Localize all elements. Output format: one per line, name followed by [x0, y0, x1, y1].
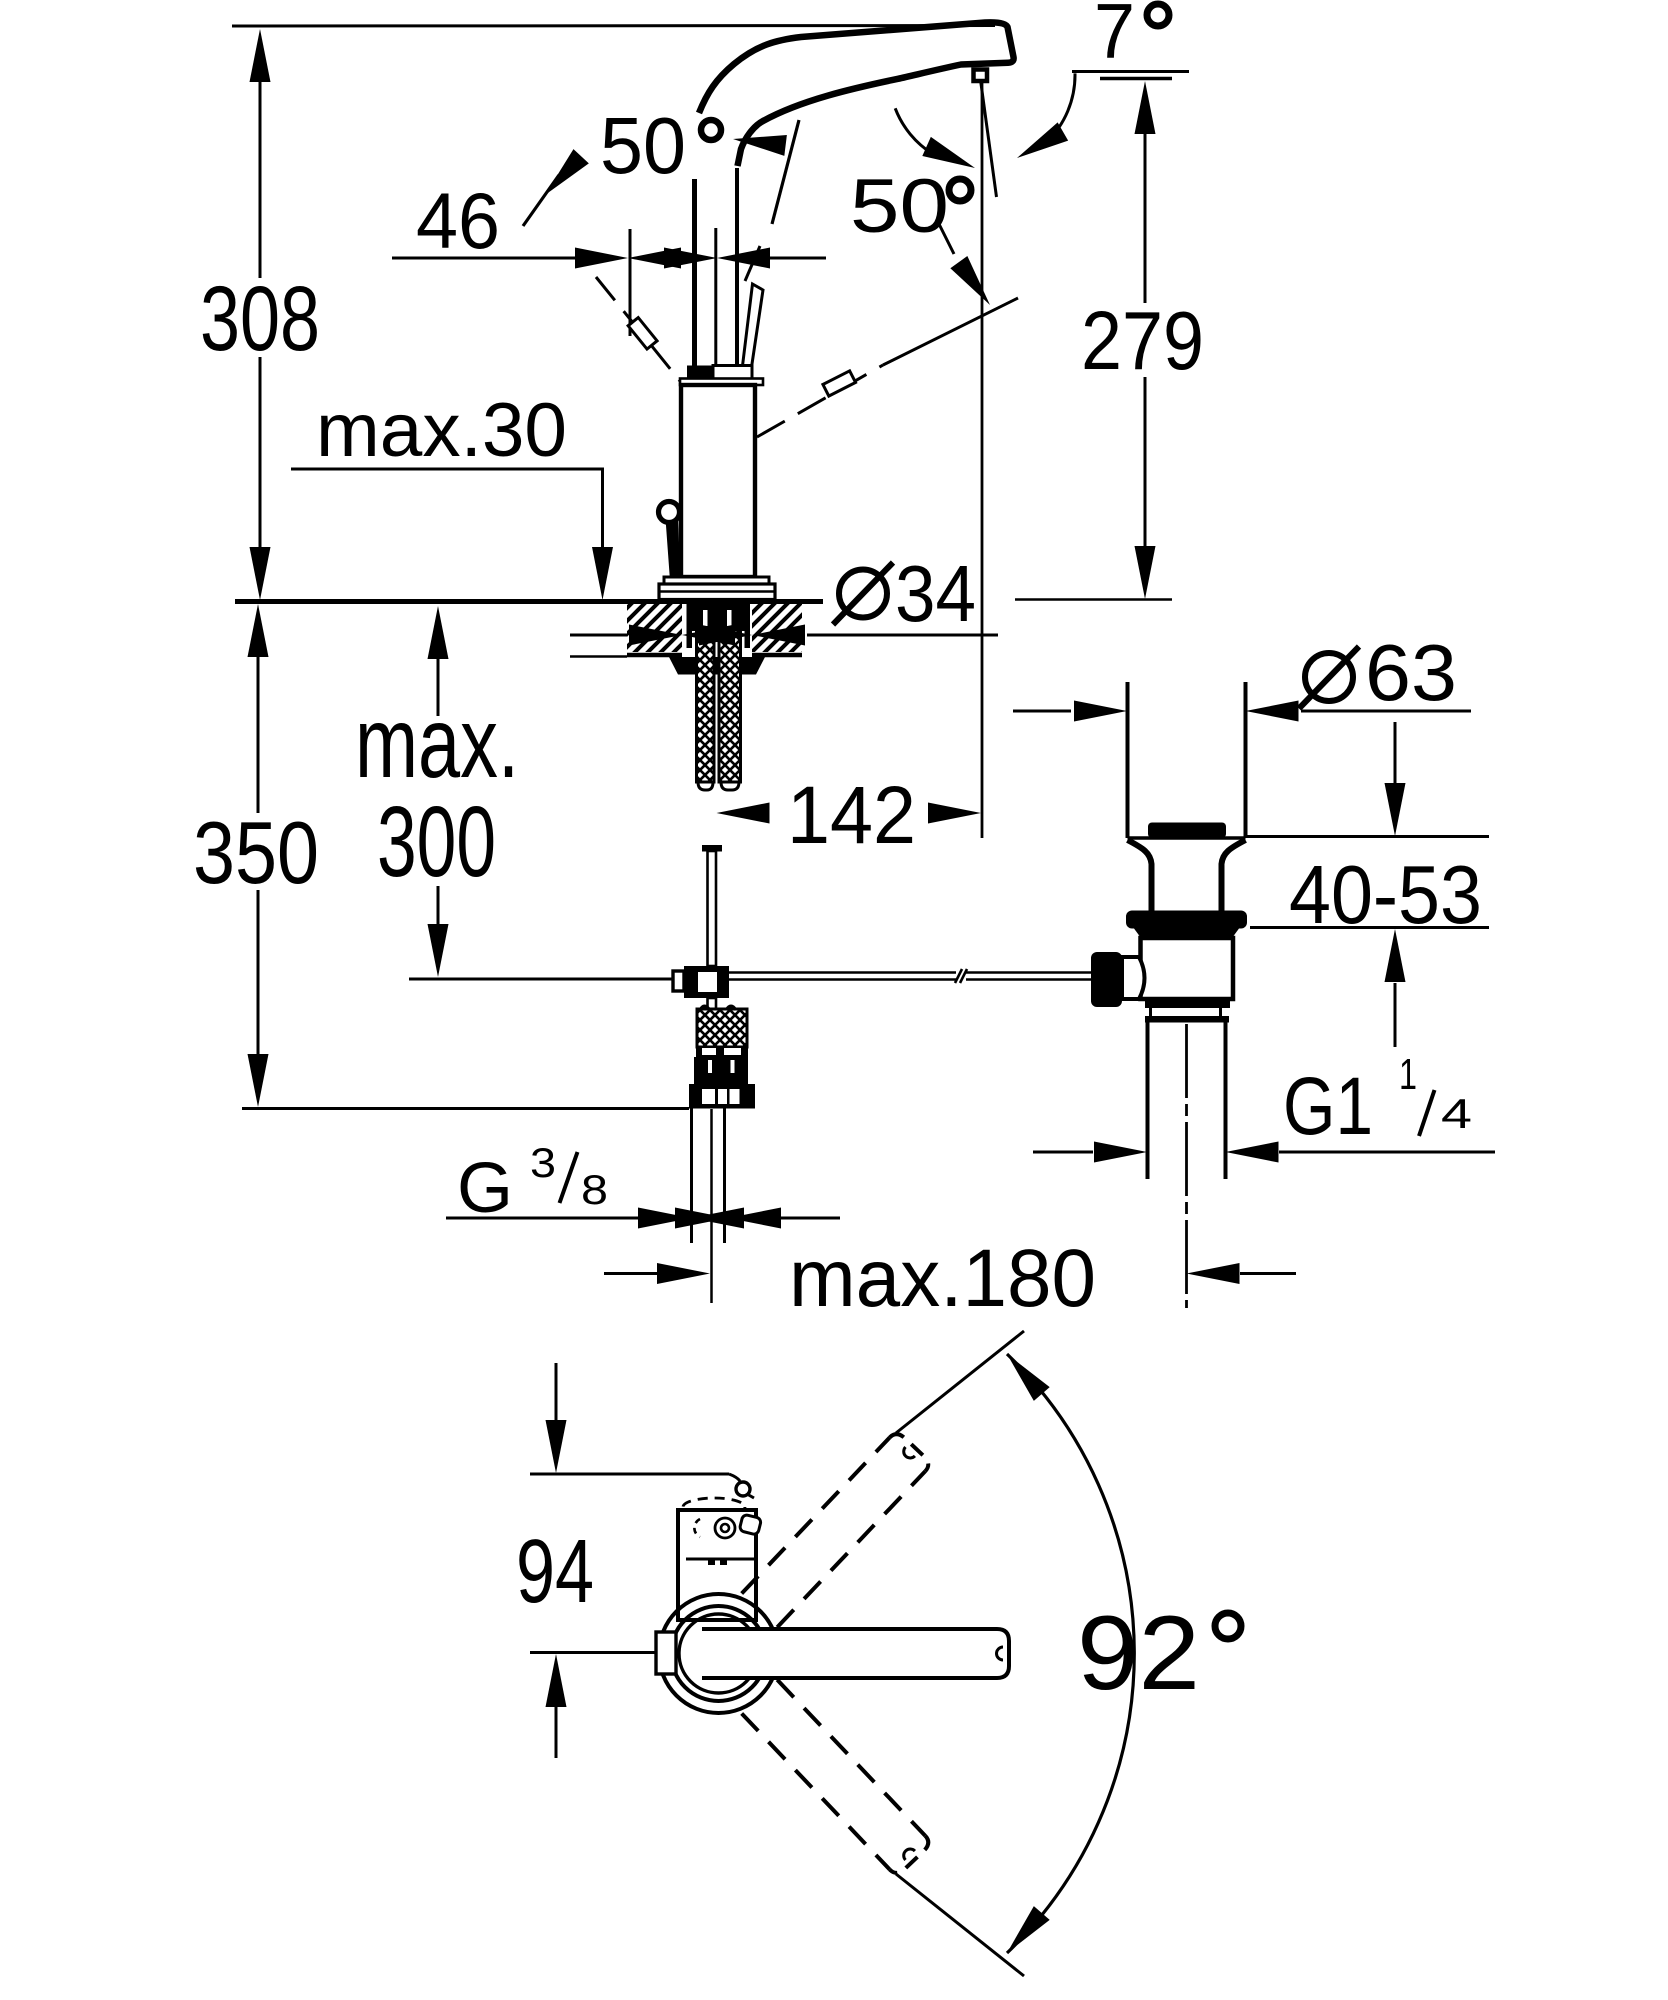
svg-text:4: 4: [1441, 1090, 1472, 1137]
svg-text:max.: max.: [355, 687, 519, 799]
svg-text:308: 308: [200, 268, 320, 370]
svg-text:7: 7: [1094, 0, 1135, 75]
svg-text:3: 3: [530, 1139, 556, 1186]
svg-text:92: 92: [1077, 1595, 1200, 1712]
svg-text:max.180: max.180: [789, 1233, 1096, 1324]
svg-text:max.30: max.30: [316, 388, 567, 473]
svg-text:50: 50: [850, 164, 949, 249]
svg-text:94: 94: [516, 1522, 594, 1622]
svg-text:142: 142: [787, 770, 916, 861]
svg-text:46: 46: [416, 176, 500, 265]
svg-text:1: 1: [1399, 1050, 1417, 1099]
svg-text:G: G: [457, 1149, 513, 1228]
svg-text:34: 34: [895, 549, 976, 638]
svg-text:50: 50: [600, 101, 686, 190]
svg-text:63: 63: [1365, 628, 1457, 717]
svg-text:8: 8: [581, 1166, 608, 1213]
svg-text:300: 300: [377, 786, 496, 898]
svg-text:G1: G1: [1283, 1061, 1373, 1152]
svg-text:279: 279: [1081, 294, 1204, 387]
svg-text:350: 350: [193, 803, 319, 902]
svg-text:40-53: 40-53: [1289, 848, 1482, 941]
